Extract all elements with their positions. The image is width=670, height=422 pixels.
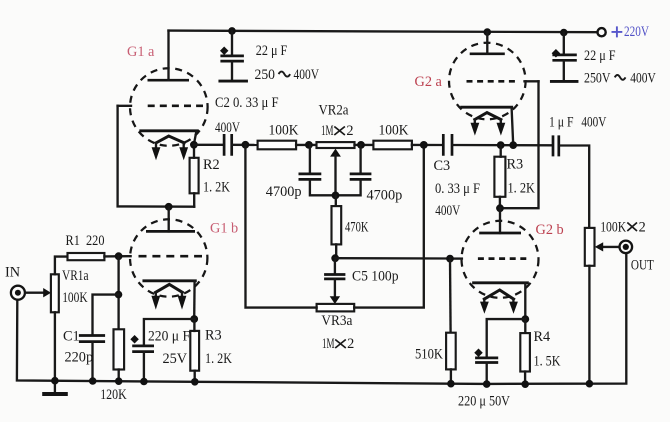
svg-text:1. 5K: 1. 5K [534, 354, 562, 370]
triode G1a [118, 31, 208, 161]
capacitor 22uF 250~400V (left) [220, 31, 320, 83]
junction C1/ground rail [89, 377, 97, 385]
heater G2b [484, 290, 513, 299]
svg-text:400V: 400V [630, 71, 656, 87]
grid G1b [139, 255, 203, 258]
resistor R4 1.5K [524, 319, 526, 333]
svg-text:25V: 25V [163, 351, 188, 367]
wire: VR1a bottom to ground [54, 312, 56, 380]
junction R3/ground rail [191, 378, 199, 386]
potentiometer VR3a 1M x2 [317, 304, 355, 312]
junction 220u/ground rail [483, 380, 491, 388]
capacitor C5 100p [334, 258, 336, 274]
svg-text:2: 2 [346, 123, 353, 139]
wire: 220uF to ground [143, 352, 145, 382]
junction node G1b grid [115, 252, 123, 260]
envelope G1a [130, 68, 208, 146]
triode G2b [450, 208, 564, 314]
svg-text:1. 2K: 1. 2K [205, 351, 233, 367]
wire: VR3a right up to node B [354, 145, 424, 308]
junction G1b cathode node [190, 315, 198, 323]
svg-text:4700p: 4700p [266, 184, 302, 200]
svg-text:G1 a: G1 a [127, 44, 155, 60]
junction G1b plate node [165, 203, 173, 211]
wire: pot bottom to ground [588, 266, 590, 384]
svg-text:G1 b: G1 b [210, 221, 238, 237]
wire: grid node down to 120K [117, 256, 119, 329]
heater G2a [475, 113, 501, 120]
heater G1b [156, 284, 183, 292]
resistor 100K (left) [258, 141, 297, 150]
plate G1a [148, 79, 190, 82]
resistor 100K (right) [373, 141, 412, 150]
svg-text:VR3a: VR3a [321, 313, 353, 329]
svg-text:100K: 100K [269, 122, 300, 138]
junction 220uF/ground rail [140, 378, 148, 386]
junction 120K/ground rail [115, 377, 123, 385]
svg-text:2: 2 [347, 336, 354, 352]
cathode G1a [141, 129, 198, 132]
wire: G2a grid down to G2b plate node [500, 81, 538, 208]
svg-text:1M: 1M [321, 123, 334, 139]
wire: C1 to ground [91, 342, 93, 381]
svg-text:0. 33 μ F: 0. 33 μ F [435, 181, 480, 197]
svg-text:400V: 400V [215, 120, 241, 136]
wire: C1 branch [93, 295, 119, 336]
junction on B+ rail above C-22uF-left [228, 27, 236, 35]
svg-text:120K: 120K [100, 387, 127, 403]
svg-text:R2: R2 [203, 157, 220, 173]
svg-text:22 μ F: 22 μ F [584, 48, 616, 64]
capacitor 1uF 400V [553, 135, 559, 156]
junction G2b cathode node [521, 315, 529, 323]
svg-text:2: 2 [639, 220, 646, 236]
wire: G1a grid lead [118, 105, 131, 107]
svg-text:400V: 400V [581, 115, 607, 131]
svg-text:220p: 220p [65, 349, 94, 365]
wiper arrow VR2a [330, 149, 341, 157]
plate G2b [499, 208, 501, 233]
svg-text:R4: R4 [534, 329, 551, 345]
wire: VR1a top to R1 [55, 257, 68, 275]
wire: 220u to ground [486, 363, 488, 384]
wire: G2b grid lead left [450, 257, 462, 259]
triode G2a [415, 32, 539, 145]
wiper arrow 100Kx2 [604, 246, 619, 248]
junction G2b plate node [496, 204, 504, 212]
junction wiper node [332, 192, 340, 200]
junction G1a cathode node [190, 141, 198, 149]
svg-text:400V: 400V [294, 67, 320, 83]
junction G2a cathode node [509, 141, 517, 149]
svg-text:C1: C1 [63, 329, 80, 345]
svg-text:G2 a: G2 a [415, 74, 443, 90]
svg-text:250: 250 [255, 67, 276, 83]
envelope G2a [449, 43, 526, 120]
wire: R3 leads [193, 319, 196, 382]
resistor 510K [449, 259, 452, 333]
wire: G2a plate to B+ rail [486, 32, 488, 54]
terminal IN [11, 286, 25, 300]
wire: C3 to cathode node [453, 144, 552, 147]
envelope G2b [462, 221, 539, 298]
wiper arrow VR3a [330, 296, 340, 304]
junction R3 top node [497, 141, 505, 149]
wire: R2 bottom lead [193, 193, 195, 206]
junction pot/ground rail [586, 380, 594, 388]
heater G1a [156, 136, 184, 143]
svg-text:220V: 220V [624, 24, 650, 40]
junction node A (C2 out / VR3a left) [242, 141, 250, 149]
wire: G1a grid to G1b plate node (SRPP link) [118, 106, 195, 207]
wire: VR2a right to 100K [355, 144, 374, 146]
svg-text:4700p: 4700p [367, 187, 403, 203]
wire: ground bottom rail [17, 254, 626, 384]
wire: R2 top lead [193, 145, 195, 158]
wire: 100K right to C3 [412, 144, 442, 146]
svg-text:1. 2K: 1. 2K [508, 181, 536, 197]
wire: R3 leads [499, 145, 502, 208]
svg-text:C3: C3 [434, 158, 451, 174]
junction bass node (470K/C5) [331, 254, 339, 262]
svg-text:470K: 470K [345, 220, 369, 236]
svg-text:1. 2K: 1. 2K [203, 180, 231, 196]
cathode G2a [462, 106, 512, 109]
capacitor C3 0.33uF 400V [443, 134, 452, 156]
potentiometer VR1a [51, 274, 59, 312]
svg-text:100K: 100K [62, 290, 88, 306]
grid G1a [148, 104, 203, 107]
wire: VR3a left to node A [245, 145, 316, 308]
junction on B+ rail above C-22uF-right [560, 29, 568, 37]
svg-text:R1 220: R1 220 [66, 233, 105, 249]
svg-text:250V: 250V [584, 71, 611, 87]
envelope G1b [130, 219, 207, 296]
resistor R3 (right) 1.2K [494, 157, 505, 197]
wire: C2 to 100K [233, 144, 258, 146]
plate G2a [470, 52, 505, 55]
wire: B+ top rail [169, 31, 598, 33]
svg-text:R3: R3 [507, 157, 524, 173]
svg-text:100K: 100K [600, 220, 627, 236]
resistor 470K [335, 195, 337, 206]
svg-text:OUT: OUT [631, 258, 654, 274]
svg-text:400V: 400V [435, 203, 461, 219]
resistor R1 220 [68, 253, 105, 260]
svg-text:22 μ F: 22 μ F [256, 43, 288, 59]
grid G2b [478, 257, 526, 260]
svg-text:100K: 100K [379, 122, 410, 138]
svg-text:220 μ 50V: 220 μ 50V [458, 394, 511, 410]
wire: G1a plate to B+ rail [167, 31, 169, 81]
junction VR1a/ground rail [51, 377, 59, 385]
svg-text:IN: IN [5, 265, 20, 281]
junction node B (100K/C3) [420, 141, 428, 149]
capacitor 4700p (left) [309, 145, 311, 174]
junction node C1 branch [115, 291, 123, 299]
svg-text:1 μ F: 1 μ F [549, 115, 574, 131]
junction 510K/ground rail [447, 380, 455, 388]
cathode G2b [474, 281, 528, 284]
wire: cathode node to C-220uF [144, 319, 194, 346]
grid G2a [467, 80, 516, 83]
terminal OUT [620, 241, 633, 254]
resistor R3 (left) 1.2K [190, 331, 199, 371]
svg-text:220 μ F: 220 μ F [148, 329, 190, 345]
wire: 100K to VR2a [296, 144, 316, 146]
svg-text:VR2a: VR2a [319, 103, 350, 119]
capacitor C1 220p [79, 336, 105, 342]
capacitor 4700p (right) [359, 145, 361, 174]
wire: G2b cathode down [524, 283, 526, 319]
resistor 120K [114, 329, 125, 369]
capacitor 22uF 250V~400V (right) [551, 33, 656, 87]
wire: R1 to G1b grid node [104, 255, 130, 258]
resistor R2 [190, 158, 199, 194]
wire: 1uF to 100Kx2 pot [560, 146, 589, 228]
wire: bass node to G2b grid [335, 257, 450, 260]
wire: G2a grid lead right [525, 80, 539, 82]
wire: 120K to ground [118, 370, 120, 382]
junction G2b grid node [446, 255, 454, 263]
svg-text:G2 b: G2 b [536, 222, 564, 238]
svg-text:510K: 510K [415, 347, 444, 363]
label +220V [612, 26, 623, 37]
junction VR2a left node [305, 141, 313, 149]
svg-text:R3: R3 [205, 328, 222, 344]
svg-text:C2 0. 33 μ F: C2 0. 33 μ F [215, 95, 279, 111]
wire: G1a cathode node to C2 [194, 144, 223, 146]
cathode G1b [144, 279, 195, 282]
capacitor C2 0.33uF 400V [224, 134, 232, 156]
junction on B+ rail above G2a plate [484, 28, 492, 36]
ground symbol [54, 381, 56, 393]
triode G1b [130, 207, 238, 310]
svg-text:VR1a: VR1a [62, 268, 89, 284]
svg-text:C5 100p: C5 100p [352, 269, 399, 285]
junction R4/ground rail [521, 380, 529, 388]
wire: cathode node to C-220u [487, 319, 526, 358]
potentiometer 100Kx2 [585, 228, 595, 266]
plate G1b [168, 207, 170, 232]
wire: G1b cathode down [193, 281, 196, 319]
wire: IN to VR1a wiper arrow [26, 292, 44, 294]
potentiometer VR2a 1M x2 [317, 142, 355, 148]
terminal +220V [598, 28, 606, 36]
capacitor 220u 50V [475, 358, 498, 363]
junction VR2a right node [357, 141, 365, 149]
svg-text:1M: 1M [322, 336, 335, 352]
capacitor 220uF 25V [132, 346, 154, 352]
